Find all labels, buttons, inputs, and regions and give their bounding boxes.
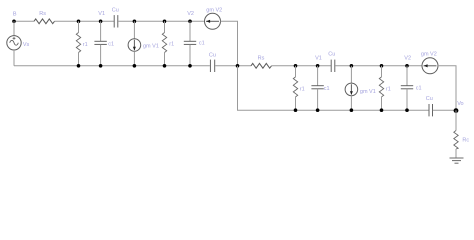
- capacitor c1 (stage2 left): [311, 66, 329, 110]
- voltage source Vs: [7, 21, 30, 66]
- node junction mid rail gmV1b: [350, 64, 354, 68]
- svg-text:V2: V2: [404, 56, 411, 62]
- current source gm V2 (stage1, horizontal): [205, 8, 223, 30]
- node bottom rail r1d: [380, 108, 384, 112]
- node junction top rail gm V1: [133, 20, 137, 24]
- svg-text:Rc: Rc: [462, 137, 469, 143]
- wire gmV2b to corner down to Vo: [438, 66, 456, 110]
- wire mid rail Rs2 to Cu2: [272, 65, 331, 67]
- svg-text:Cu: Cu: [426, 96, 433, 102]
- node V1 (stage2): [315, 56, 322, 68]
- wire bottom rail cap to Vo: [433, 109, 456, 111]
- wire top rail segment B to Rs: [14, 20, 34, 22]
- node V2: [187, 11, 194, 23]
- ground: [450, 158, 464, 163]
- node 4-way junction mid rail: [236, 64, 240, 68]
- svg-text:Rs: Rs: [258, 55, 265, 61]
- svg-text:gm V1: gm V1: [360, 89, 376, 95]
- capacitor Cu (stage2 series, mid rail): [328, 52, 335, 72]
- svg-text:Cu: Cu: [112, 7, 119, 13]
- current source gm V2 (stage2, horizontal): [421, 52, 438, 74]
- wire top rail source to corner, down to mid rail: [221, 21, 238, 66]
- node bottom rail c1c: [316, 108, 320, 112]
- svg-text:c1: c1: [416, 86, 422, 92]
- node bottom rail r1c: [294, 108, 298, 112]
- node junction top rail r1b: [163, 20, 167, 24]
- svg-text:Rs: Rs: [39, 11, 46, 17]
- svg-text:Cu: Cu: [209, 52, 216, 58]
- svg-text:c1: c1: [324, 86, 330, 92]
- node V2 (stage2): [404, 56, 411, 68]
- svg-text:c1: c1: [108, 42, 114, 48]
- svg-text:gm V2: gm V2: [206, 8, 222, 14]
- wire top rail Cu to gm V2 source: [118, 20, 204, 22]
- svg-text:r1: r1: [386, 87, 391, 93]
- resistor Rs (stage2): [251, 55, 272, 68]
- node mid rail c1b: [188, 64, 192, 68]
- svg-text:Cu: Cu: [328, 52, 335, 58]
- node V1: [98, 11, 105, 23]
- current source gm V1 (stage1, vertical): [128, 21, 159, 66]
- node junction mid rail r1d: [380, 64, 384, 68]
- resistor Rs: [34, 11, 55, 24]
- svg-text:r1: r1: [83, 42, 88, 48]
- wire vertical mid junction to bottom rail: [238, 66, 429, 110]
- svg-text:gm V2: gm V2: [421, 52, 437, 58]
- svg-text:Vo: Vo: [457, 101, 463, 107]
- resistor Rc: [454, 110, 470, 158]
- svg-text:r1: r1: [169, 41, 174, 47]
- svg-text:V1: V1: [315, 56, 322, 62]
- node Vo: [454, 101, 464, 113]
- capacitor Cu (series in bottom rail): [426, 96, 433, 116]
- capacitor c1 (stage1 at V2): [184, 21, 205, 66]
- capacitor c1 (stage2 at V2): [401, 66, 422, 110]
- node mid rail c1a: [99, 64, 103, 68]
- resistor r1 (stage1 right): [162, 21, 174, 66]
- node mid rail gmV1a: [133, 64, 137, 68]
- current source gm V1 (stage2, vertical): [345, 66, 376, 110]
- node bottom rail c1d: [405, 108, 409, 112]
- resistor r1 (stage2 right): [379, 66, 390, 110]
- node mid rail r1a: [77, 64, 81, 68]
- svg-text:Vs: Vs: [23, 42, 30, 48]
- capacitor c1 (stage1 left): [94, 21, 114, 66]
- wire mid rail cap to Rs2: [215, 65, 251, 67]
- svg-text:c1: c1: [199, 41, 205, 47]
- capacitor Cu (series in mid rail): [209, 52, 216, 72]
- wire mid rail left section: [14, 65, 210, 67]
- resistor r1 (stage2 left): [293, 66, 304, 110]
- svg-text:V2: V2: [187, 11, 194, 17]
- node mid rail r1b: [163, 64, 167, 68]
- svg-text:gm V1: gm V1: [143, 44, 159, 50]
- capacitor Cu (stage1 series, top rail): [112, 7, 119, 27]
- resistor r1 (stage1 left): [76, 21, 87, 66]
- svg-text:r1: r1: [300, 87, 305, 93]
- node B: [12, 12, 17, 23]
- svg-text:B: B: [13, 12, 17, 18]
- svg-text:V1: V1: [98, 11, 105, 17]
- wire mid rail Cu2 to gmV2b: [335, 65, 422, 67]
- node bottom rail gmV1b: [350, 108, 354, 112]
- node junction mid rail r1c: [294, 64, 298, 68]
- wire top rail Rs to Cu: [55, 20, 114, 22]
- node junction top rail r1a: [77, 20, 81, 24]
